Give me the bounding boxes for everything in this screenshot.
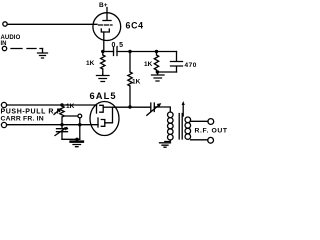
wire bottom ground rail (62, 138, 80, 140)
value label 1K R4 (66, 103, 75, 110)
resistor R4 1K potentiometer (60, 105, 64, 125)
value label 6AL5 (90, 91, 117, 101)
value label 1K R3 (144, 61, 153, 68)
wire bend down to C2 (176, 52, 178, 62)
tube V1 6C4 envelope (93, 13, 121, 41)
inductor L2 transformer secondary (185, 117, 191, 123)
tube V2 6AL5 envelope (90, 102, 119, 136)
svg-text:1K: 1K (132, 79, 141, 86)
pin plate lead to B+ (103, 8, 111, 21)
svg-text:470: 470 (185, 62, 197, 69)
wire bottom rail R3 to C2 (157, 71, 177, 73)
value label 470 (185, 62, 197, 69)
wire audio input to grid (7, 23, 97, 25)
ground GND4 (70, 141, 84, 147)
capacitor C2 470 (171, 62, 183, 73)
resistor R1 1K cathode (101, 52, 105, 75)
value label 6C4 (126, 21, 144, 31)
wire secondary top to output (191, 120, 208, 122)
terminal J6 RF out return (208, 137, 214, 143)
wire wiper to ground rail (79, 118, 81, 139)
node label PUSH-PULL R.F (1, 109, 62, 116)
svg-text:6AL5: 6AL5 (90, 91, 117, 101)
ground GND2 (97, 74, 110, 82)
value label 1K R1 (86, 60, 95, 67)
svg-text:6C4: 6C4 (126, 21, 144, 31)
ground GND1 (38, 49, 48, 59)
node label AUDIO IN (1, 35, 21, 47)
terminal J5 RF out hot (208, 119, 214, 125)
wire dashed to ground (11, 48, 43, 50)
wire wiper tap (64, 115, 78, 117)
ground GND5 (160, 143, 171, 147)
node label CARR. FR. IN (1, 116, 44, 123)
wire C4 to transformer (154, 107, 170, 112)
wire RF input top (7, 104, 97, 106)
node B+ (99, 2, 108, 9)
pin transformer core (179, 114, 182, 140)
node ground rail junction (75, 138, 78, 141)
pin C4 arrow (147, 105, 159, 115)
wire cathode down (103, 32, 105, 52)
pin diode 2 cathode (101, 120, 105, 127)
svg-text:1K: 1K (66, 103, 75, 110)
wire diode 2 cathode up (105, 107, 113, 123)
capacitor C3 variable tuning (57, 125, 68, 140)
node junction top of R2 (128, 50, 131, 53)
resistor R3 1K shunt (154, 52, 158, 73)
wire C1 to C2 top rail (117, 51, 177, 53)
node label R.F. OUT (195, 128, 228, 135)
ground GND3 (152, 72, 165, 81)
wire primary bottom to ground (165, 140, 171, 142)
node pot bottom junction (60, 123, 63, 126)
inductor L1 transformer primary (168, 112, 174, 118)
value label 0.5 (112, 42, 124, 49)
svg-text:1K: 1K (144, 61, 153, 68)
node top of pot R4 (60, 103, 63, 106)
terminal J3 RF input hot (1, 102, 6, 107)
pin wiper arrow (54, 110, 59, 115)
node cathode junction (101, 50, 104, 53)
pin cathode (101, 29, 109, 32)
pin C3 arrow (55, 128, 66, 135)
terminal J4 RF input return (1, 122, 6, 127)
node junction top of R3 (155, 50, 158, 53)
pin diode 2 plate (97, 118, 99, 127)
value label 1K R2 (132, 79, 141, 86)
wire cathode node to C1 (104, 51, 114, 53)
wire RF input bottom (7, 124, 98, 126)
terminal J1 audio input hot (3, 22, 7, 26)
pin diode 1 plate (96, 105, 98, 114)
capacitor C4 variable coupling (151, 103, 155, 112)
svg-text:0.5: 0.5 (112, 42, 124, 49)
svg-text:PUSH-PULL R.F: PUSH-PULL R.F (1, 109, 62, 116)
terminal J2 audio input ground (2, 46, 6, 50)
capacitor C1 0.5 (114, 47, 118, 56)
svg-text:B+: B+ (99, 2, 108, 9)
node wiper line crossing (78, 123, 81, 126)
pin tuning arrow (182, 104, 184, 116)
wire diode 1 cathode out (103, 106, 114, 108)
node junction ground rail (156, 70, 159, 73)
terminal wiper tie point (78, 114, 82, 118)
svg-text:CARR FR. IN: CARR FR. IN (1, 116, 44, 123)
wire secondary bottom to output (191, 139, 208, 141)
svg-text:1K: 1K (86, 60, 95, 67)
node junction R2 bottom (128, 105, 131, 108)
pin diode 1 cathode (100, 105, 103, 112)
svg-text:R.F. OUT: R.F. OUT (195, 128, 228, 135)
pin grid dashed (99, 24, 113, 26)
resistor R2 1K vertical drop (128, 52, 132, 108)
wire detector output (115, 106, 151, 108)
